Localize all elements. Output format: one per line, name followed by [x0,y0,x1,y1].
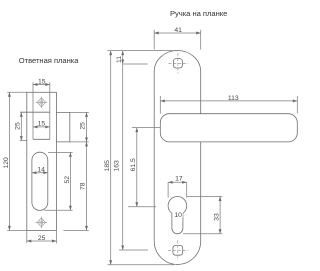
screw hole top [36,97,48,109]
dim 15 inner [33,126,50,128]
strike plate outline [27,92,57,230]
spindle hole top [173,59,182,68]
svg-text:33: 33 [214,213,221,221]
svg-text:Ответная планка: Ответная планка [19,56,79,65]
latch cutout left edge [32,82,34,139]
svg-text:120: 120 [3,157,10,169]
svg-text:185: 185 [104,160,111,172]
spindle hole bottom [173,245,183,255]
svg-text:61.5: 61.5 [130,158,137,171]
right lip tab [56,112,69,141]
svg-text:10: 10 [174,212,182,219]
label 10 [174,212,183,218]
euro cylinder hole [168,197,187,234]
svg-text:163: 163 [114,160,121,172]
spindle top centerlines [168,53,188,74]
screw hole bottom [36,217,48,229]
dim 185 [110,51,112,265]
dim 33 [219,197,221,234]
dim 25 right [86,112,88,141]
svg-text:78: 78 [80,182,87,190]
svg-text:41: 41 [174,27,182,34]
plate outline upper [154,51,201,242]
latch cutout bottom [33,138,50,140]
dim 120 [8,92,10,230]
svg-text:52: 52 [64,176,71,184]
svg-text:25: 25 [38,235,46,242]
dim 15 top [33,84,50,86]
svg-text:15: 15 [38,120,46,127]
dim 25 left [20,112,22,140]
svg-text:17: 17 [175,176,183,183]
dim 11 [122,51,124,64]
svg-text:11: 11 [116,56,123,63]
dim 25 bottom [27,240,57,242]
dim 163 [122,64,124,250]
dim 113 [160,100,297,102]
dim 61.5 [136,128,138,207]
svg-text:15: 15 [38,78,46,85]
dim 14 [32,172,48,174]
dim 41 [154,32,201,34]
lever handle [160,114,297,142]
dim 78 [86,142,88,231]
oval cutout [32,152,48,210]
latch cutout right edge [49,82,51,139]
plate outline lower [154,142,201,265]
svg-text:Ручка на планке: Ручка на планке [170,9,227,18]
svg-text:14: 14 [37,167,45,174]
svg-text:25: 25 [80,122,87,130]
svg-text:113: 113 [228,95,239,102]
svg-text:25: 25 [15,122,22,130]
dim 17 [168,181,187,183]
latch cutout horizontal at 112 [20,111,50,113]
dim 52 [69,152,71,210]
spindle bottom centerlines [168,240,188,260]
